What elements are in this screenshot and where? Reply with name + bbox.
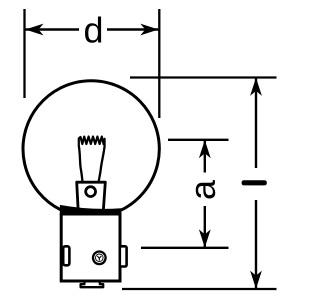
base shell (metal cap) bbox=[61, 214, 120, 281]
black band (glass-to-base solder joint) bbox=[60, 206, 121, 216]
bottom contact bbox=[81, 282, 104, 288]
dim a: bottom extension line bbox=[141, 247, 229, 249]
dim l: top arrowhead bbox=[250, 78, 262, 96]
dim d: right extension line bbox=[158, 9, 160, 118]
dim d: left extension line bbox=[23, 9, 25, 98]
dim a: top extension line bbox=[168, 139, 229, 141]
dim a: bottom arrowhead bbox=[199, 229, 211, 247]
dim l: top extension line bbox=[130, 76, 277, 78]
dim l: dimension line upper segment bbox=[255, 79, 257, 169]
dim a: top arrowhead bbox=[199, 140, 211, 158]
dim d: left arrowhead bbox=[25, 24, 43, 36]
dim d: dimension line left segment bbox=[26, 28, 80, 30]
label l (rotated) bbox=[242, 180, 267, 185]
svg-text:a: a bbox=[182, 179, 223, 200]
stem press wedge bbox=[77, 182, 106, 211]
dim d: right arrowhead bbox=[140, 24, 158, 36]
svg-text:d: d bbox=[84, 10, 104, 51]
base center screw/exhaust detail bbox=[93, 251, 106, 264]
bulb glass envelope (circle, bottom truncated) bbox=[23, 81, 159, 210]
base right bayonet tab bbox=[120, 246, 127, 266]
filament lead wires / stem funnel bbox=[79, 146, 83, 182]
dim l: dimension line lower segment bbox=[255, 200, 257, 288]
dim l: bottom arrowhead bbox=[250, 271, 262, 289]
stem hole bbox=[86, 187, 96, 197]
filament zigzag coil bbox=[79, 137, 105, 147]
base left locating pin bbox=[63, 246, 69, 265]
dim d: dimension line right segment bbox=[107, 28, 158, 30]
dim a: dimension line lower segment bbox=[204, 206, 206, 247]
dim a: dimension line upper segment bbox=[204, 141, 206, 173]
dim l: bottom extension line bbox=[122, 288, 277, 290]
